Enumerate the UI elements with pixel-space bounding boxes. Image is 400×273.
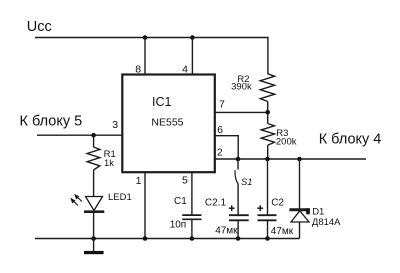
svg-text:47мк: 47мк [271, 226, 294, 237]
junction ground/LED [91, 236, 96, 241]
capacitor C2 polarity plus [257, 205, 263, 211]
svg-text:C1: C1 [174, 196, 187, 207]
wire R1 to LED1 [93, 170, 95, 197]
capacitor C2.1 polarity plus [229, 205, 235, 211]
ground [84, 251, 104, 254]
junction rail/C2 [265, 157, 270, 162]
resistor R2 [260, 74, 274, 102]
junction rail/D1 [297, 157, 302, 162]
wire ground stub [93, 239, 95, 251]
svg-text:S1: S1 [241, 177, 252, 187]
svg-text:К блоку 5: К блоку 5 [20, 114, 83, 130]
svg-text:C2.1: C2.1 [205, 197, 227, 208]
svg-text:К блоку 4: К блоку 4 [319, 132, 382, 148]
wire D1 top [299, 159, 301, 209]
wire ground rail [35, 238, 300, 240]
capacitor C2.1 [229, 215, 249, 220]
wire Ucc rail [35, 37, 268, 39]
zener diode D1 triangle [291, 211, 309, 222]
svg-text:5: 5 [182, 175, 188, 187]
wire R1 top [93, 135, 95, 147]
junction Ucc/pin4 [190, 35, 195, 40]
wire R2 bottom to node [267, 102, 269, 113]
junction node pin7/R2/R3 [265, 110, 270, 115]
wire S1 to C2.1 [237, 184, 239, 215]
svg-text:1: 1 [136, 175, 142, 187]
svg-text:7: 7 [219, 99, 225, 111]
wire C2 bottom [267, 221, 269, 239]
svg-text:3: 3 [112, 119, 118, 131]
svg-text:IC1: IC1 [152, 95, 172, 109]
svg-text:6: 6 [217, 124, 223, 136]
wire pin 2 rail (K bloku 4) [215, 158, 366, 160]
junction ground/pin1 [143, 236, 148, 241]
resistor R1 [87, 147, 100, 170]
wire LED1 to ground rail [93, 212, 95, 239]
LED LED1 triangle [86, 197, 103, 211]
wire D1 bottom [299, 222, 301, 239]
wire Ucc corner to R2 [267, 37, 269, 74]
svg-text:Д814А: Д814А [312, 217, 341, 228]
svg-text:390k: 390k [231, 81, 252, 92]
wire C1 bottom [191, 220, 193, 239]
svg-text:10п: 10п [170, 220, 187, 231]
wire pin 1 drop [144, 172, 146, 239]
wire C2.1 bottom [237, 221, 239, 239]
junction ground/C2.1 [236, 236, 241, 241]
wire pin 5 to C1 [191, 172, 193, 215]
resistor R3 [261, 124, 274, 146]
capacitor C2 [258, 215, 277, 220]
IC IC1 box [122, 75, 215, 173]
LED LED1 emission arrow 1 [74, 194, 82, 202]
svg-text:Ucc: Ucc [27, 19, 52, 35]
svg-text:LED1: LED1 [108, 192, 132, 203]
svg-text:C2: C2 [271, 198, 284, 209]
wire C2 top [267, 159, 269, 215]
switch S1 arm [235, 170, 238, 184]
LED LED1 emission arrow 2 [70, 198, 78, 206]
LED LED1 cathode bar [84, 210, 104, 213]
junction Ucc/pin8 [143, 35, 148, 40]
zener diode D1 cathode bar [289, 208, 309, 211]
junction pin3/R1 [91, 133, 96, 138]
svg-text:200k: 200k [276, 136, 297, 147]
wire pin 4 drop [191, 38, 193, 76]
wire S1 top stub [237, 159, 239, 170]
wire R3 bottom [267, 145, 269, 159]
svg-text:1k: 1k [104, 158, 114, 169]
svg-text:2: 2 [217, 147, 223, 159]
wire pin 6 [215, 136, 238, 159]
svg-text:NE555: NE555 [151, 116, 183, 128]
wire node to R3 [267, 112, 269, 123]
junction ground/C2 [265, 236, 270, 241]
junction ground/C1 [190, 236, 195, 241]
wire pin 3 (K bloku 5 line) [37, 134, 122, 136]
capacitor C1 [182, 215, 201, 219]
junction rail/S1 [236, 157, 241, 162]
wire pin 7 [215, 111, 268, 113]
svg-text:47мк: 47мк [215, 226, 238, 237]
wire pin 8 drop [144, 38, 146, 76]
